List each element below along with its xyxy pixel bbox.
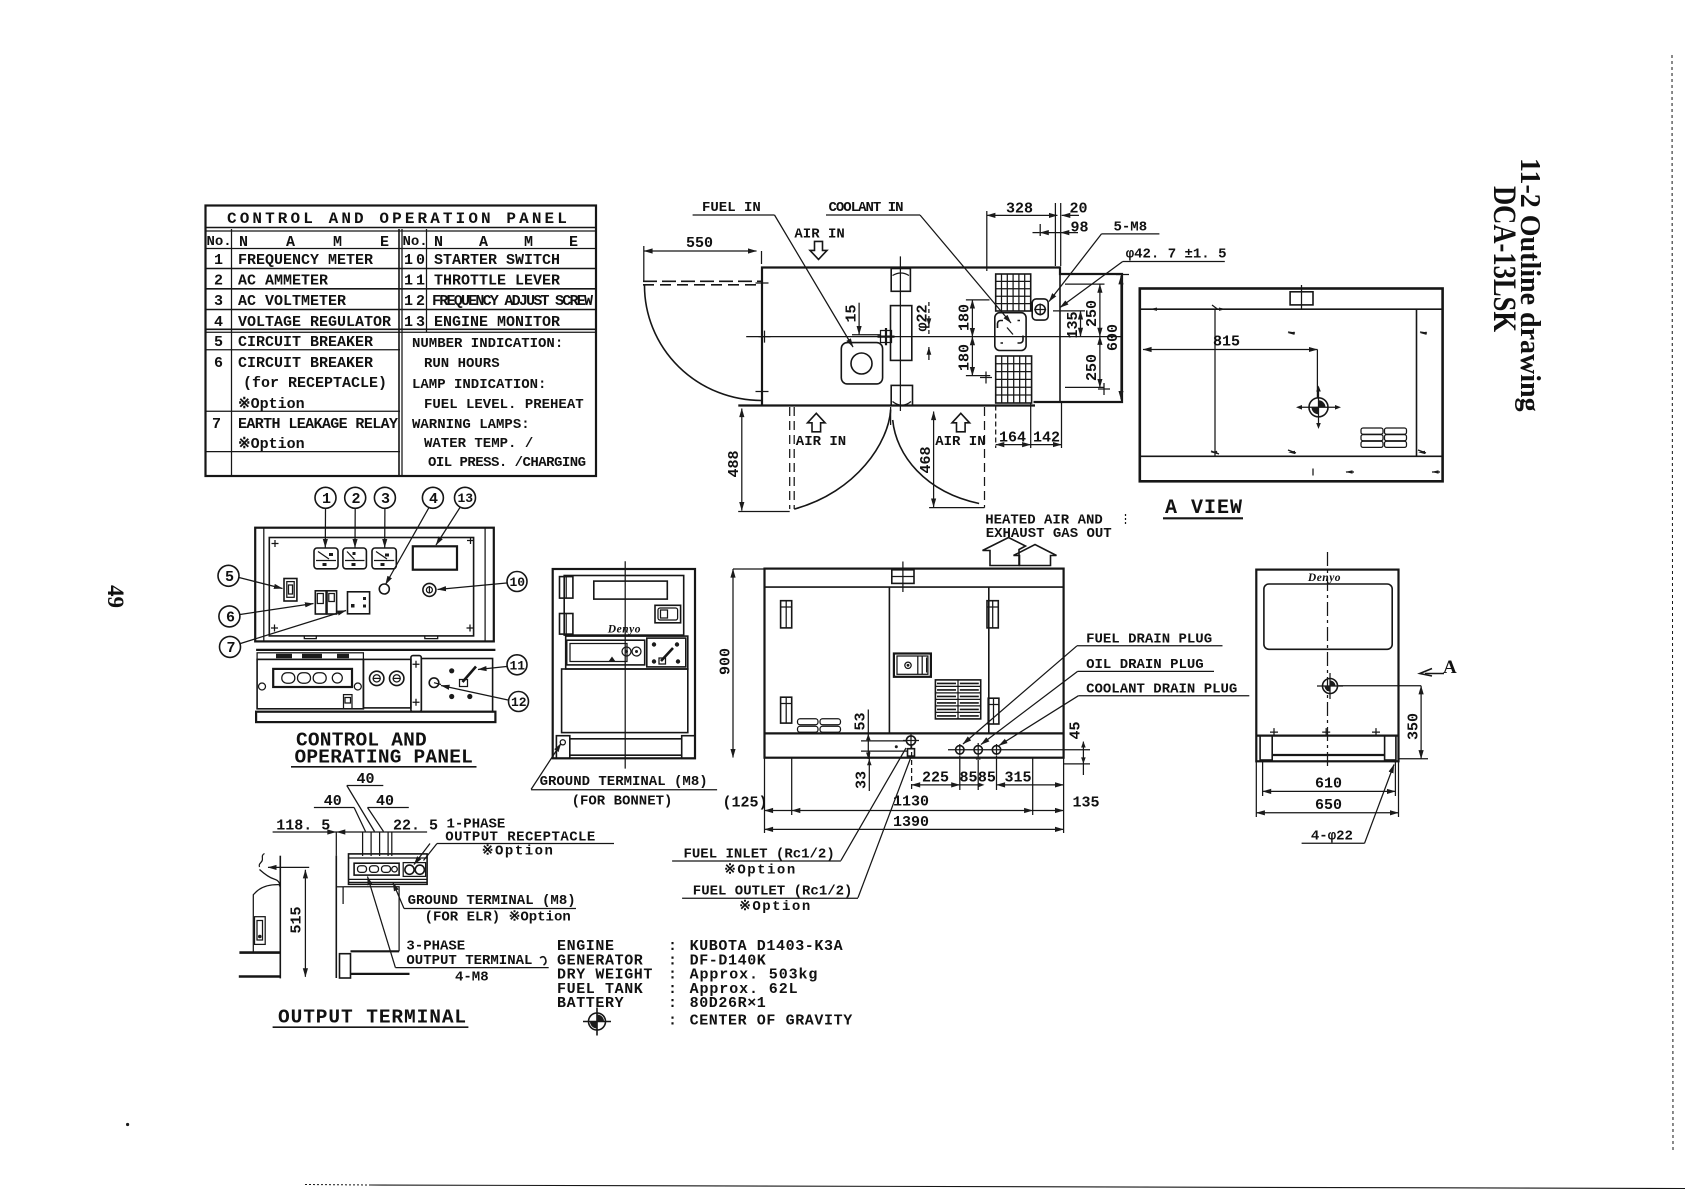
callout circle 13	[455, 487, 476, 508]
radiator grille upper	[996, 274, 1031, 311]
svg-text:※Option: ※Option	[238, 436, 305, 453]
svg-text:CONTROL AND OPERATION PANEL: CONTROL AND OPERATION PANEL	[227, 210, 570, 228]
svg-text:6: 6	[214, 355, 223, 372]
svg-text:FREQUENCY ADJUST SCREW: FREQUENCY ADJUST SCREW	[432, 293, 593, 310]
panel divider bar	[411, 656, 421, 712]
svg-text:RUN HOURS: RUN HOURS	[424, 356, 500, 372]
table row line 4 (double)	[206, 328, 597, 330]
svg-text:7: 7	[227, 640, 236, 657]
svg-text:(for RECEPTACLE): (for RECEPTACLE)	[243, 375, 387, 392]
rear COG horizontal reference line	[1338, 685, 1421, 687]
front window	[594, 581, 668, 599]
svg-text:GROUND TERMINAL (M8): GROUND TERMINAL (M8)	[540, 774, 708, 790]
svg-text:1390: 1390	[893, 814, 929, 831]
side lock box	[894, 654, 931, 677]
front centerline	[624, 561, 626, 768]
svg-text:CIRCUIT BREAKER: CIRCUIT BREAKER	[238, 334, 373, 351]
svg-text:610: 610	[1315, 776, 1342, 793]
svg-text:EARTH LEAKAGE RELAY: EARTH LEAKAGE RELAY	[238, 416, 398, 433]
svg-text:NAME: NAME	[239, 234, 427, 251]
extension lines down to receptacle	[335, 832, 337, 856]
svg-text:900: 900	[718, 648, 735, 675]
svg-text:350: 350	[1406, 713, 1423, 740]
lower extension lines	[764, 758, 766, 833]
dim 53	[867, 710, 869, 760]
dim 45	[1082, 742, 1084, 775]
side hinges left door	[781, 601, 792, 723]
dim 488	[741, 409, 743, 511]
svg-text:98: 98	[1071, 220, 1089, 237]
leader from 3-phase terminal	[368, 877, 396, 968]
coolant in leader	[920, 215, 1011, 323]
dim 350	[1420, 686, 1422, 759]
svg-text:4-φ22: 4-φ22	[1311, 829, 1353, 845]
table row line 3	[206, 309, 597, 311]
front base feet and band	[556, 736, 695, 759]
double door swing arcs (plan lower)	[794, 410, 890, 510]
svg-text:VOLTAGE REGULATOR: VOLTAGE REGULATOR	[238, 314, 391, 331]
side bonnet bottom line	[765, 732, 1064, 734]
svg-text:AIR IN: AIR IN	[794, 227, 844, 243]
table column line: left No.	[231, 229, 233, 476]
dim 515 vertical	[304, 870, 306, 977]
svg-text::: :	[668, 995, 677, 1012]
label FUEL INLET (Rc1/2) with leader	[841, 748, 906, 861]
circuit breaker (6) pair	[315, 591, 336, 614]
dim 468	[933, 412, 935, 508]
svg-text:NAME: NAME	[434, 234, 614, 251]
svg-text:3: 3	[381, 491, 390, 508]
svg-text:10: 10	[404, 252, 428, 269]
svg-text:164: 164	[999, 430, 1026, 447]
svg-text:2: 2	[214, 273, 223, 290]
A view top small rect (lifting eye)	[1290, 292, 1313, 305]
leader 2	[354, 509, 356, 548]
side outer rect	[765, 569, 1064, 758]
dim 135	[1080, 311, 1082, 336]
dim 250 lower	[1099, 336, 1101, 387]
table column line: right No.	[426, 229, 428, 332]
svg-text:Denyo: Denyo	[1307, 572, 1341, 584]
exhaust centerline	[899, 256, 901, 411]
leader 13	[436, 508, 460, 546]
A view bottom inner line	[1140, 455, 1443, 457]
table outer border	[206, 206, 597, 477]
svg-text:142: 142	[1033, 430, 1060, 447]
dim line above receptacle	[273, 831, 428, 833]
radiator grille lower	[996, 356, 1032, 403]
svg-text:※Option: ※Option	[238, 396, 305, 413]
exhaust pipe assembly	[891, 269, 913, 406]
door swing arc	[645, 286, 762, 401]
svg-text:12: 12	[404, 293, 428, 310]
leader 1	[324, 509, 326, 548]
rear window	[1264, 584, 1392, 649]
front ground terminal bolt	[560, 740, 565, 745]
panel lower middle box (receptacles 1-phase)	[363, 659, 411, 708]
svg-text:225: 225	[922, 770, 949, 787]
svg-text:135: 135	[1065, 311, 1082, 338]
dim 180 lower	[971, 337, 973, 376]
table title row line (double)	[206, 227, 597, 229]
svg-text:250: 250	[1084, 354, 1101, 381]
leader 5	[239, 578, 283, 589]
svg-text:315: 315	[1005, 770, 1032, 787]
rear base channel	[1256, 736, 1398, 760]
callout circle 11	[507, 655, 527, 675]
5-M8 mounting hole	[1032, 299, 1048, 320]
svg-text:FREQUENCY METER: FREQUENCY METER	[238, 252, 373, 269]
callout circle 2	[345, 487, 366, 508]
bay bottom line right	[929, 507, 984, 509]
svg-text:AIR IN: AIR IN	[935, 434, 985, 450]
callout circle 7	[220, 636, 241, 657]
leader 11	[478, 667, 507, 670]
svg-text:5: 5	[214, 334, 223, 351]
svg-text:49: 49	[103, 585, 128, 608]
svg-text:No.: No.	[403, 234, 428, 250]
dim 250 upper	[1099, 284, 1101, 336]
svg-text:5-M8: 5-M8	[1114, 220, 1148, 236]
svg-text:DCA-13LSK: DCA-13LSK	[1486, 186, 1522, 332]
stray dot bottom-left	[126, 1123, 129, 1126]
plan centerline	[746, 336, 1122, 338]
svg-text:LAMP INDICATION:: LAMP INDICATION:	[412, 377, 546, 393]
front starter box	[655, 605, 681, 623]
A view top inner line	[1140, 308, 1443, 310]
faint right page edge dotted line	[1672, 55, 1673, 1150]
svg-text:OUTPUT TERMINAL: OUTPUT TERMINAL	[278, 1007, 467, 1029]
fuel filler	[841, 343, 882, 384]
svg-text:4: 4	[214, 314, 223, 331]
label FUEL OUTLET (Rc1/2) with leader	[858, 757, 911, 898]
svg-text:※Option: ※Option	[482, 844, 555, 860]
svg-text:NUMBER INDICATION:: NUMBER INDICATION:	[412, 336, 563, 352]
faint bottom scan line	[370, 1185, 1685, 1189]
door tick at hinge	[756, 277, 769, 399]
svg-text:180: 180	[957, 344, 974, 371]
svg-text:1: 1	[214, 252, 223, 269]
svg-text:488: 488	[726, 450, 743, 477]
side lifting eye	[892, 562, 914, 593]
leader 12	[441, 686, 508, 701]
open door edge (double dashed)	[643, 280, 762, 282]
callout circle 10	[507, 572, 527, 592]
svg-text:250: 250	[1084, 300, 1101, 327]
voltage regulator (5)	[284, 579, 297, 602]
plan interior divider (radiator bay)	[1059, 274, 1061, 402]
AIR IN label lower-right with up arrow	[952, 413, 970, 432]
svg-text:12: 12	[511, 695, 527, 710]
plan bottom edge	[738, 404, 1035, 406]
svg-text:(125): (125)	[723, 795, 768, 812]
svg-text:1130: 1130	[893, 794, 929, 811]
A view outer rect	[1140, 289, 1443, 482]
side hinges middle door	[987, 601, 999, 724]
svg-text:※Option: ※Option	[739, 899, 812, 915]
svg-text:φ42. 7 ±1. 5: φ42. 7 ±1. 5	[1126, 247, 1227, 263]
A view right inner vertical	[1416, 309, 1418, 456]
svg-text:No.: No.	[207, 234, 232, 250]
svg-text:815: 815	[1213, 334, 1240, 351]
panel face inner rect	[269, 538, 473, 636]
table row line 7 (left half)	[206, 451, 401, 453]
svg-text:COOLANT DRAIN PLUG: COOLANT DRAIN PLUG	[1086, 682, 1237, 698]
svg-text:2: 2	[352, 491, 361, 508]
heated air hollow arrows	[983, 538, 1026, 566]
table row line 2	[206, 288, 597, 290]
svg-text:600: 600	[1105, 324, 1122, 351]
side drain plugs	[948, 743, 1010, 760]
svg-text:515: 515	[289, 906, 306, 933]
panel corner tick marks	[271, 537, 474, 632]
leader 7	[241, 611, 347, 644]
table column line: center divider (double)	[398, 229, 400, 476]
svg-text:1: 1	[322, 491, 331, 508]
dim 225 / 85 / 85 / 315 extension lines	[911, 744, 913, 790]
earth leakage relay (7)	[348, 592, 370, 614]
dim 600 (right edge)	[1120, 276, 1122, 400]
svg-text:6: 6	[226, 610, 235, 627]
panel bottom strip	[256, 712, 495, 722]
panel upper box outer	[255, 528, 494, 642]
svg-text:135: 135	[1073, 795, 1100, 812]
svg-text:A VIEW: A VIEW	[1165, 497, 1243, 520]
svg-text:FUEL LEVEL. PREHEAT: FUEL LEVEL. PREHEAT	[424, 397, 584, 413]
side fuel inlet fitting	[903, 733, 919, 756]
svg-text:AC VOLTMETER: AC VOLTMETER	[238, 293, 346, 310]
rear lower extension lines	[1262, 761, 1264, 796]
svg-text:FUEL OUTLET (Rc1/2): FUEL OUTLET (Rc1/2)	[693, 884, 853, 900]
leader 10	[438, 583, 507, 590]
dim 550	[644, 250, 757, 252]
svg-text:GROUND TERMINAL (M8): GROUND TERMINAL (M8)	[408, 893, 576, 909]
svg-text:BATTERY: BATTERY	[557, 995, 624, 1012]
svg-text:STARTER SWITCH: STARTER SWITCH	[434, 252, 560, 269]
callout circle 12	[509, 692, 529, 712]
engine monitor (13)	[413, 546, 457, 569]
air-in bay dashed door lines (left pair)	[789, 407, 791, 509]
A view left inner vertical	[1214, 309, 1216, 456]
svg-text:11: 11	[404, 273, 428, 290]
callout circle 4	[422, 487, 443, 508]
leader 4	[386, 508, 430, 585]
svg-text:180: 180	[957, 304, 974, 331]
fuel in leader	[775, 215, 854, 347]
coolant inlet box	[995, 313, 1026, 351]
svg-text:4: 4	[429, 491, 438, 508]
svg-text:468: 468	[918, 446, 935, 473]
svg-text:OUTPUT TERMINAL: OUTPUT TERMINAL	[406, 953, 532, 969]
A view center of gravity mark	[1296, 386, 1341, 430]
dim 900	[732, 569, 734, 758]
stray squiggle mark	[540, 957, 546, 965]
panel lower right box (throttle lever 11 / adjust 12)	[421, 659, 492, 712]
rear centerline (dash-dot)	[1327, 552, 1329, 766]
leader 6	[240, 604, 314, 615]
front control band	[566, 636, 688, 669]
AC voltmeter (3)	[372, 548, 396, 569]
leader to receptacles	[424, 844, 438, 861]
left profile of receptacle panel	[253, 856, 280, 979]
svg-text:CENTER OF GRAVITY: CENTER OF GRAVITY	[690, 1013, 853, 1030]
front outer rect	[553, 569, 695, 758]
svg-text:85: 85	[960, 770, 978, 787]
side grille (middle door)	[935, 680, 980, 719]
svg-text:5: 5	[225, 569, 234, 586]
label GROUND TERMINAL (M8) (FOR BONNET)	[531, 744, 561, 790]
svg-text:53: 53	[853, 712, 870, 730]
rear outer rect	[1256, 570, 1398, 762]
AC ammeter (2)	[343, 548, 367, 569]
svg-text:Denyo: Denyo	[607, 624, 641, 636]
svg-text:ENGINE MONITOR: ENGINE MONITOR	[434, 314, 560, 331]
ground wire squiggle leader	[259, 854, 264, 868]
svg-text:AIR IN: AIR IN	[796, 434, 846, 450]
svg-text:45: 45	[1068, 721, 1085, 739]
floor lines left	[239, 951, 280, 954]
table row line 5 (left half)	[206, 349, 401, 351]
dim 15	[858, 303, 860, 335]
rear center of gravity mark	[1317, 673, 1343, 699]
svg-text:33: 33	[854, 771, 871, 789]
table row line 1	[206, 268, 597, 270]
svg-text:OIL PRESS. /CHARGING: OIL PRESS. /CHARGING	[428, 455, 586, 471]
svg-text:13: 13	[458, 491, 474, 506]
svg-text:COOLANT IN: COOLANT IN	[829, 200, 904, 216]
receptacle assembly front	[349, 854, 428, 884]
svg-text:13: 13	[404, 314, 428, 331]
svg-text:OIL DRAIN PLUG: OIL DRAIN PLUG	[1086, 657, 1204, 673]
plan outline main box	[762, 268, 1122, 406]
frequency meter (1)	[314, 548, 338, 569]
front lower door	[562, 669, 688, 733]
A view battery block	[1361, 428, 1407, 447]
AIR IN label lower-left with up arrow	[808, 413, 826, 432]
side door divider left	[888, 587, 890, 733]
svg-text:AC AMMETER: AC AMMETER	[238, 273, 328, 290]
leader 3	[384, 509, 386, 548]
svg-text:3: 3	[214, 293, 223, 310]
svg-text:WATER TEMP. /: WATER TEMP. /	[424, 436, 533, 452]
dim 33	[868, 751, 870, 791]
small dashed mark	[1125, 514, 1127, 524]
dim 180 upper	[971, 300, 973, 337]
front upper door	[564, 576, 684, 636]
svg-text:WARNING LAMPS:: WARNING LAMPS:	[412, 417, 530, 433]
main vertical reference line	[335, 856, 337, 978]
svg-text::: :	[668, 1013, 677, 1030]
panel lower assembly: hinge strip	[256, 650, 495, 659]
leader from ground terminal ELR	[393, 883, 404, 909]
svg-text:11: 11	[510, 659, 526, 674]
svg-text:※Option: ※Option	[724, 863, 797, 879]
svg-text:7: 7	[212, 416, 221, 433]
side louvers on left door	[798, 719, 841, 733]
svg-text:10: 10	[510, 575, 526, 590]
starter switch (10)	[423, 583, 436, 596]
callout circle 1	[315, 487, 336, 508]
center of gravity legend symbol	[583, 1008, 611, 1036]
callout circle 6	[219, 606, 240, 627]
svg-text:CIRCUIT BREAKER: CIRCUIT BREAKER	[238, 355, 373, 372]
rear base tick marks	[1270, 728, 1380, 736]
panel lower left box (output cover)	[257, 659, 363, 708]
svg-text:FUEL DRAIN PLUG: FUEL DRAIN PLUG	[1086, 632, 1212, 648]
svg-text:THROTTLE LEVER: THROTTLE LEVER	[434, 273, 560, 290]
svg-text:FUEL IN: FUEL IN	[702, 200, 761, 216]
side top band line	[765, 586, 1064, 588]
svg-text:(FOR ELR) ※Option: (FOR ELR) ※Option	[425, 910, 571, 926]
A view tick marks	[1150, 305, 1440, 476]
frequency adjust screw (4)	[379, 584, 389, 594]
svg-text:15: 15	[844, 304, 861, 322]
svg-text:A: A	[1443, 657, 1457, 678]
foot block and floor lines	[340, 954, 351, 978]
svg-text:80D26R×1: 80D26R×1	[690, 995, 767, 1012]
svg-text:(FOR BONNET): (FOR BONNET)	[572, 794, 673, 810]
callout circle 5	[218, 565, 239, 586]
terminal box below (side profile)	[336, 887, 399, 952]
svg-text:OPERATING PANEL: OPERATING PANEL	[295, 747, 474, 769]
table row line 6 (left half)	[206, 410, 401, 412]
svg-text:4-M8: 4-M8	[455, 970, 489, 986]
svg-text:FUEL INLET (Rc1/2): FUEL INLET (Rc1/2)	[684, 847, 835, 863]
panel bottom cutouts	[304, 636, 437, 639]
panel upper box inner frame lines	[263, 528, 265, 642]
svg-text:650: 650	[1315, 797, 1342, 814]
front hinges left	[560, 577, 573, 635]
callout circle 3	[374, 487, 395, 508]
side door divider right	[988, 587, 990, 733]
table header row line	[206, 248, 597, 250]
filler cross mark	[878, 328, 895, 345]
svg-text:550: 550	[686, 235, 713, 252]
air-in bay dashed line (right)	[984, 407, 986, 508]
